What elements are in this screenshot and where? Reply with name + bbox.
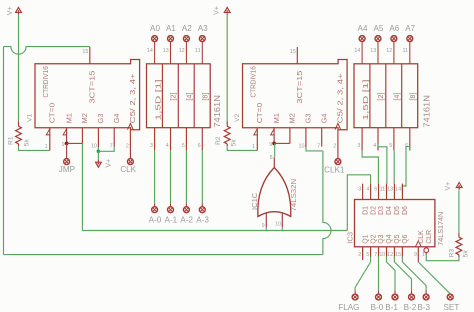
svg-text:1,5D [1]: 1,5D [1] — [153, 79, 162, 120]
svg-text:A-3: A-3 — [196, 215, 209, 224]
svg-text:[4]: [4] — [392, 92, 401, 100]
counter IC2 load input pin 4 — [377, 128, 379, 151]
testpoint B-1 — [392, 294, 398, 300]
svg-text:[2]: [2] — [376, 92, 385, 100]
svg-text:[8]: [8] — [201, 92, 210, 100]
svg-text:M1: M1 — [64, 113, 73, 123]
svg-text:10: 10 — [275, 222, 281, 228]
svg-text:Q6: Q6 — [402, 234, 409, 243]
resistor R3 top lead — [458, 233, 460, 238]
svg-text:13: 13 — [163, 48, 169, 54]
wire R2 bottom to IC2 pin 1 (CT=0) — [227, 146, 257, 150]
svg-text:Q1: Q1 — [362, 234, 369, 243]
counter IC1 register column divider 1 — [161, 64, 163, 128]
svg-text:V2: V2 — [234, 114, 241, 122]
resistor R1 bottom lead — [18, 144, 20, 146]
wire JMP drop from M1 junction — [66, 143, 68, 158]
svg-text:Q3: Q3 — [378, 234, 385, 243]
svg-text:Q4: Q4 — [386, 234, 393, 243]
flip-flop IC3 D2 input pin 4 — [370, 184, 372, 200]
svg-text:D2: D2 — [370, 206, 377, 215]
resistor R2 bottom lead — [226, 144, 228, 146]
svg-text:CLK: CLK — [120, 165, 136, 174]
svg-text:JMP: JMP — [59, 165, 75, 174]
svg-text:3: 3 — [357, 143, 360, 149]
svg-text:11: 11 — [195, 48, 201, 54]
svg-text:CT=0: CT=0 — [255, 103, 264, 124]
svg-text:R1: R1 — [7, 136, 14, 145]
svg-text:3CT=15: 3CT=15 — [88, 71, 97, 104]
wire Q1 stub — [362, 247, 364, 260]
counter IC2 pin 2 clock — [337, 130, 339, 159]
svg-text:74LS174N: 74LS174N — [436, 212, 445, 246]
svg-text:4: 4 — [373, 143, 376, 149]
svg-text:9: 9 — [414, 252, 417, 258]
wire JMP net riser to D2 feed — [347, 175, 370, 231]
flip-flop IC3 Q5 output pin 12 — [393, 247, 395, 257]
testpoint A-3 — [199, 207, 205, 213]
svg-text:M1: M1 — [272, 113, 281, 123]
svg-text:IC3: IC3 — [345, 232, 354, 244]
wire V+ down to R1 top — [18, 15, 20, 122]
testpoint A-0 — [152, 207, 158, 213]
svg-text:4: 4 — [166, 143, 169, 149]
svg-text:CLR: CLR — [426, 230, 433, 244]
svg-text:14: 14 — [354, 48, 360, 54]
svg-text:7: 7 — [374, 252, 377, 258]
svg-text:A2: A2 — [182, 24, 192, 33]
wire IC2 M1 junction down to OR gate output — [274, 143, 276, 157]
resistor R3 body — [456, 237, 462, 255]
counter IC2 output register box — [354, 64, 418, 128]
counter IC2 register column divider 3 — [401, 64, 403, 128]
svg-text:5k: 5k — [23, 139, 30, 147]
wire CLR to R3 bottom — [426, 255, 459, 261]
resistor R1 body — [16, 126, 22, 144]
testpoint A5 — [375, 36, 381, 42]
svg-text:C5/ 2, 3, 4+: C5/ 2, 3, 4+ — [128, 73, 137, 123]
testpoint A3 — [199, 36, 205, 42]
flip-flop IC3 CLR bubble — [424, 248, 429, 253]
counter IC2 M1-M2 junction dot — [272, 142, 276, 146]
svg-text:V+: V+ — [445, 182, 452, 191]
testpoint CLK — [127, 159, 133, 165]
svg-text:G3: G3 — [304, 114, 313, 124]
svg-text:A1: A1 — [166, 24, 176, 33]
flip-flop IC3 D6 input pin 14 — [401, 184, 403, 200]
wire IC2 Q2 (pin5) to IC3 D5 — [393, 150, 395, 183]
svg-text:A4: A4 — [358, 24, 368, 33]
counter IC1 load input pin 5 — [185, 128, 187, 151]
wire R3 top to V+ — [458, 190, 460, 232]
supply V+ symbol +V4 (R3 pull-up) — [456, 183, 462, 190]
testpoint JMP — [64, 159, 70, 165]
counter IC2 output pin 14 (Q0) — [361, 42, 363, 64]
wire G4 to G3 junction — [98, 147, 114, 152]
testpoint B-0 — [376, 294, 382, 300]
svg-text:A-0: A-0 — [149, 215, 162, 224]
flip-flop IC3 Q3 output pin 7 — [378, 247, 380, 257]
svg-text:5: 5 — [182, 143, 185, 149]
svg-text:[2]: [2] — [169, 92, 178, 100]
testpoint A6 — [391, 36, 397, 42]
svg-text:CLK1: CLK1 — [324, 165, 345, 174]
svg-text:D3: D3 — [378, 206, 385, 215]
wire JMP net long horizontal — [82, 230, 347, 232]
flip-flop IC3 D1 input pin 3 — [362, 184, 364, 200]
flip-flop IC3 Q2 output pin 5 — [370, 247, 372, 257]
svg-text:Q2: Q2 — [370, 234, 377, 243]
wire RCO net left rail down — [3, 47, 5, 255]
counter IC1 load input pin 4 — [170, 128, 172, 151]
wire M2 long drop (JMP net) — [81, 143, 83, 230]
svg-text:Q5: Q5 — [394, 234, 401, 243]
testpoint A-2 — [183, 207, 189, 213]
supply V+ symbol +V3 (IC1 enables) (pointing down) — [96, 160, 102, 167]
svg-text:D5: D5 — [394, 206, 401, 215]
svg-text:[8]: [8] — [408, 92, 417, 100]
svg-text:A0: A0 — [150, 24, 160, 33]
counter IC1 output pin 13 (Q1) — [170, 42, 172, 64]
counter IC2 pin 9 M1 — [273, 128, 275, 144]
counter IC2 pin 10 G3 — [305, 128, 307, 148]
counter IC2 pin 15 RCO — [296, 47, 298, 64]
svg-text:A6: A6 — [389, 24, 399, 33]
counter IC1 pin 10 G3 — [97, 128, 99, 148]
svg-text:M2: M2 — [288, 113, 297, 123]
svg-text:9: 9 — [62, 142, 65, 148]
svg-text:13: 13 — [387, 187, 393, 193]
svg-text:15: 15 — [395, 252, 401, 258]
wire RCO net riser with hop over JMP net — [323, 151, 331, 255]
svg-text:4: 4 — [366, 187, 369, 193]
or-gate input pin 10 — [281, 213, 283, 227]
svg-text:B-0: B-0 — [371, 303, 384, 312]
svg-text:6: 6 — [198, 143, 201, 149]
testpoint A0 — [152, 36, 158, 42]
or-gate input pin 9 — [265, 213, 267, 227]
svg-text:D4: D4 — [386, 206, 393, 215]
counter IC1 pin 9 M1 — [66, 128, 68, 144]
counter IC1 pin G4 — [113, 128, 115, 147]
svg-text:R2: R2 — [215, 136, 222, 145]
wire IC2 Q3 (pin6) to IC3 D6 — [402, 147, 409, 192]
svg-text:D1: D1 — [362, 206, 369, 215]
wire V+ down to R2 top — [226, 15, 228, 122]
counter IC1 register column divider 2 — [177, 64, 179, 128]
wire Q6 to B-3 — [402, 257, 426, 291]
testpoint A1 — [168, 36, 174, 42]
testpoint A7 — [407, 36, 413, 42]
wire load input drop A-3 — [201, 150, 203, 203]
flip-flop IC3 clock pin 9 — [417, 247, 419, 262]
testpoint B-3 — [423, 294, 429, 300]
wire RCO net bottom horizontal — [4, 254, 323, 256]
svg-text:M2: M2 — [80, 113, 89, 123]
or-gate IC1C body — [258, 168, 291, 217]
testpoint FLAG — [352, 294, 358, 300]
flip-flop IC3 D3 input pin 6 — [378, 184, 380, 200]
svg-text:11: 11 — [380, 187, 386, 193]
svg-text:2: 2 — [358, 252, 361, 258]
counter IC2 clock edge marker — [335, 123, 341, 129]
supply V+ symbol +V2 (above R2) — [224, 7, 230, 14]
svg-text:10: 10 — [91, 144, 97, 150]
svg-text:G3: G3 — [96, 114, 105, 124]
wire Q4 to B-1 — [387, 257, 396, 291]
counter IC2 output pin 12 (Q2) — [393, 42, 395, 64]
svg-text:9: 9 — [269, 142, 272, 148]
counter IC2 pin G4 — [321, 128, 323, 147]
svg-text:3: 3 — [150, 143, 153, 149]
flip-flop IC3 Q4 output pin 10 — [386, 247, 388, 257]
svg-text:CLK: CLK — [418, 230, 425, 244]
svg-text:G4: G4 — [320, 114, 329, 124]
svg-text:5k: 5k — [231, 139, 238, 147]
counter IC1 register column divider 3 — [193, 64, 195, 128]
svg-text:1: 1 — [422, 252, 425, 258]
wire RCO net to IC2 G3/G4 pins — [306, 147, 323, 151]
testpoint A2 — [183, 36, 189, 42]
wire IC1 RCO net horizontal with hop over V+ wire — [4, 47, 90, 55]
counter IC1 pin 7 M2 — [81, 128, 83, 144]
svg-text:74LS32N: 74LS32N — [289, 179, 298, 212]
svg-text:15: 15 — [82, 49, 88, 55]
counter IC1 wire M1 to M2 — [67, 142, 83, 144]
wire Q5 to B-2 — [394, 257, 411, 291]
svg-text:D6: D6 — [402, 206, 409, 215]
testpoint A4 — [359, 36, 365, 42]
wire load input drop A-1 — [170, 150, 172, 203]
svg-text:14: 14 — [147, 48, 153, 54]
svg-text:A-2: A-2 — [180, 215, 193, 224]
flip-flop IC3 D5 input pin 13 — [393, 184, 395, 200]
flip-flop IC3 Q1 output pin 2 — [362, 247, 364, 257]
testpoint CLK1 — [335, 159, 341, 165]
svg-text:5: 5 — [366, 252, 369, 258]
counter IC1 output register box — [147, 64, 211, 128]
svg-text:[4]: [4] — [185, 92, 194, 100]
svg-text:9: 9 — [262, 223, 265, 229]
testpoint A-1 — [168, 207, 174, 213]
counter IC2 register column divider 1 — [369, 64, 371, 128]
svg-text:74161N: 74161N — [422, 95, 431, 128]
svg-text:13: 13 — [370, 48, 376, 54]
counter IC1 control block body — [35, 60, 140, 130]
svg-text:IC1C: IC1C — [250, 192, 259, 210]
svg-text:6: 6 — [374, 187, 377, 193]
flip-flop IC3 D4 input pin 11 — [386, 184, 388, 200]
counter IC1 output pin 12 (Q2) — [185, 42, 187, 64]
svg-text:2: 2 — [333, 143, 336, 149]
svg-text:7: 7 — [317, 143, 320, 149]
svg-text:1,5D [1]: 1,5D [1] — [361, 79, 370, 120]
svg-text:1: 1 — [252, 144, 255, 150]
svg-text:12: 12 — [386, 48, 392, 54]
svg-text:1: 1 — [45, 144, 48, 150]
wire IC2 Q1 (pin4) to IC3 D4 — [378, 144, 387, 184]
counter IC1 pin 2 clock — [129, 130, 131, 159]
svg-text:C5/ 2, 3, 4+: C5/ 2, 3, 4+ — [336, 73, 345, 123]
svg-text:3: 3 — [358, 187, 361, 193]
counter IC2 load input pin 6 — [409, 128, 411, 151]
svg-text:12: 12 — [387, 252, 393, 258]
counter IC1 clock edge marker — [128, 123, 134, 129]
counter IC2 control block body — [243, 60, 348, 130]
svg-text:V+: V+ — [105, 159, 112, 168]
resistor R2 top lead — [226, 121, 228, 126]
resistor R3 bottom lead — [458, 255, 460, 258]
svg-text:CT=0: CT=0 — [48, 103, 57, 124]
svg-text:5k: 5k — [463, 250, 470, 258]
counter IC2 pin 1 CT=0 — [256, 128, 258, 151]
svg-text:G4: G4 — [112, 114, 121, 124]
wire CLK pin to SET — [418, 262, 450, 294]
testpoint SET — [447, 294, 453, 300]
svg-text:12: 12 — [179, 48, 185, 54]
svg-text:CTRDIV16: CTRDIV16 — [248, 66, 257, 98]
resistor R2 body — [224, 126, 230, 144]
testpoint B-2 — [409, 294, 415, 300]
counter IC2 wire M1 to M2 — [274, 142, 290, 144]
counter IC1 M1-M2 junction dot — [65, 142, 69, 146]
supply V+ symbol +V1 (top left) — [16, 7, 22, 14]
wire Q2 to FLAG — [355, 257, 371, 291]
svg-text:R3: R3 — [449, 249, 456, 258]
counter IC1 output pin 14 (Q0) — [154, 42, 156, 64]
junction dot G3/G4 net — [97, 150, 101, 154]
wire junction down to V+ symbol — [97, 151, 99, 160]
svg-text:2: 2 — [126, 143, 129, 149]
counter IC2 output pin 13 (Q1) — [377, 42, 379, 64]
svg-text:V+: V+ — [214, 6, 221, 15]
resistor R1 top lead — [18, 121, 20, 126]
svg-text:A-1: A-1 — [164, 215, 177, 224]
counter IC2 load input pin 3 — [361, 128, 363, 151]
counter IC1 load input pin 3 — [154, 128, 156, 151]
svg-text:8: 8 — [270, 155, 273, 161]
svg-text:B-3: B-3 — [417, 303, 430, 312]
wire Q3 to B-0 — [378, 257, 380, 291]
svg-text:SET: SET — [444, 303, 460, 312]
svg-text:V+: V+ — [7, 6, 14, 15]
counter IC1 load input pin 6 — [201, 128, 203, 151]
counter IC2 register column divider 2 — [385, 64, 387, 128]
svg-text:15: 15 — [290, 49, 296, 55]
counter IC2 load input pin 5 — [393, 128, 395, 151]
svg-text:A5: A5 — [373, 24, 383, 33]
wire load input drop A-2 — [185, 150, 187, 203]
counter IC2 pin 7 M2 — [289, 128, 291, 144]
counter IC1 pin 15 RCO — [89, 47, 91, 64]
svg-text:11: 11 — [402, 48, 408, 54]
counter IC2 output pin 11 (Q3) — [409, 42, 411, 64]
svg-text:10: 10 — [379, 252, 385, 258]
wire R1 bottom to IC1 pin 1 (CT=0) — [19, 146, 50, 150]
wire load input drop A-0 — [154, 150, 156, 203]
svg-text:7: 7 — [110, 143, 113, 149]
wire IC1 G3 to junction — [97, 147, 99, 151]
svg-text:B-2: B-2 — [404, 303, 417, 312]
svg-text:V1: V1 — [26, 114, 33, 122]
flip-flop IC3 Q6 output pin 15 — [401, 247, 403, 257]
svg-text:B-1: B-1 — [385, 303, 398, 312]
svg-text:14: 14 — [395, 187, 401, 193]
svg-text:CTRDIV16: CTRDIV16 — [41, 66, 50, 98]
flip-flop IC3 74LS174N body — [355, 200, 435, 247]
counter IC1 output pin 11 (Q3) — [201, 42, 203, 64]
svg-text:3CT=15: 3CT=15 — [295, 71, 304, 104]
counter IC1 pin 1 CT=0 — [49, 128, 51, 151]
flip-flop IC3 CLR pin 1 — [425, 253, 427, 255]
svg-text:A3: A3 — [198, 24, 208, 33]
svg-text:A7: A7 — [405, 24, 415, 33]
wire IC2 Q0 (pin3) to IC3 D3 — [362, 150, 378, 183]
svg-text:5: 5 — [389, 143, 392, 149]
svg-text:74161N: 74161N — [213, 95, 222, 128]
svg-text:10: 10 — [299, 144, 305, 150]
svg-text:FLAG: FLAG — [338, 303, 359, 312]
flip-flop IC3 clock wedge — [415, 241, 421, 247]
or-gate output pin 8 — [273, 157, 275, 167]
